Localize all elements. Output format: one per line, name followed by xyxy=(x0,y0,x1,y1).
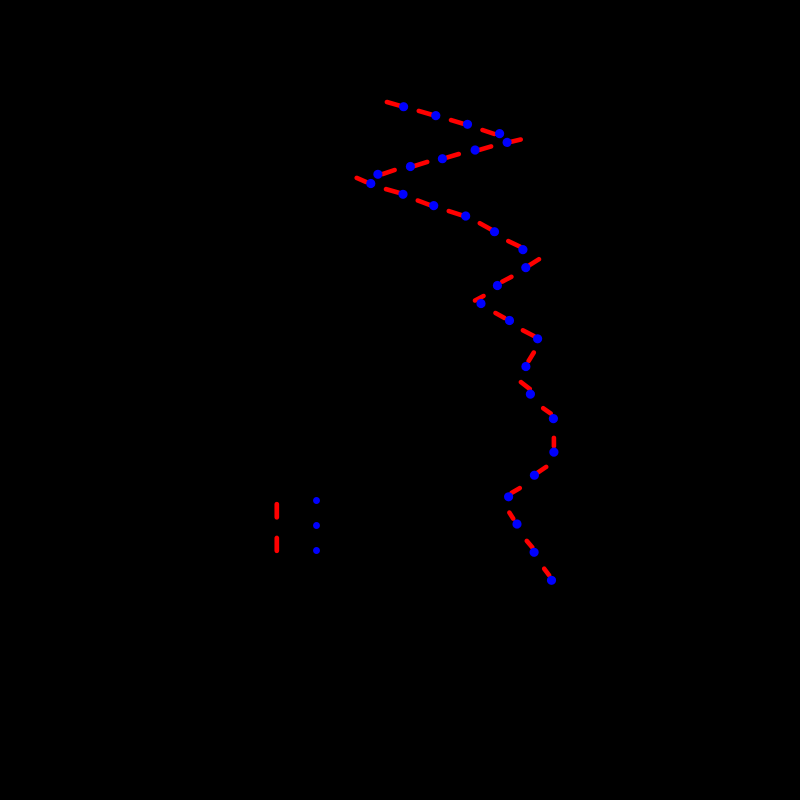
blue trajectory points xyxy=(366,102,558,585)
blue vertical dotted line marks (left) xyxy=(313,497,320,554)
red dash tails of trajectory points xyxy=(357,102,554,575)
red vertical dashed line marks (left) xyxy=(274,504,279,551)
